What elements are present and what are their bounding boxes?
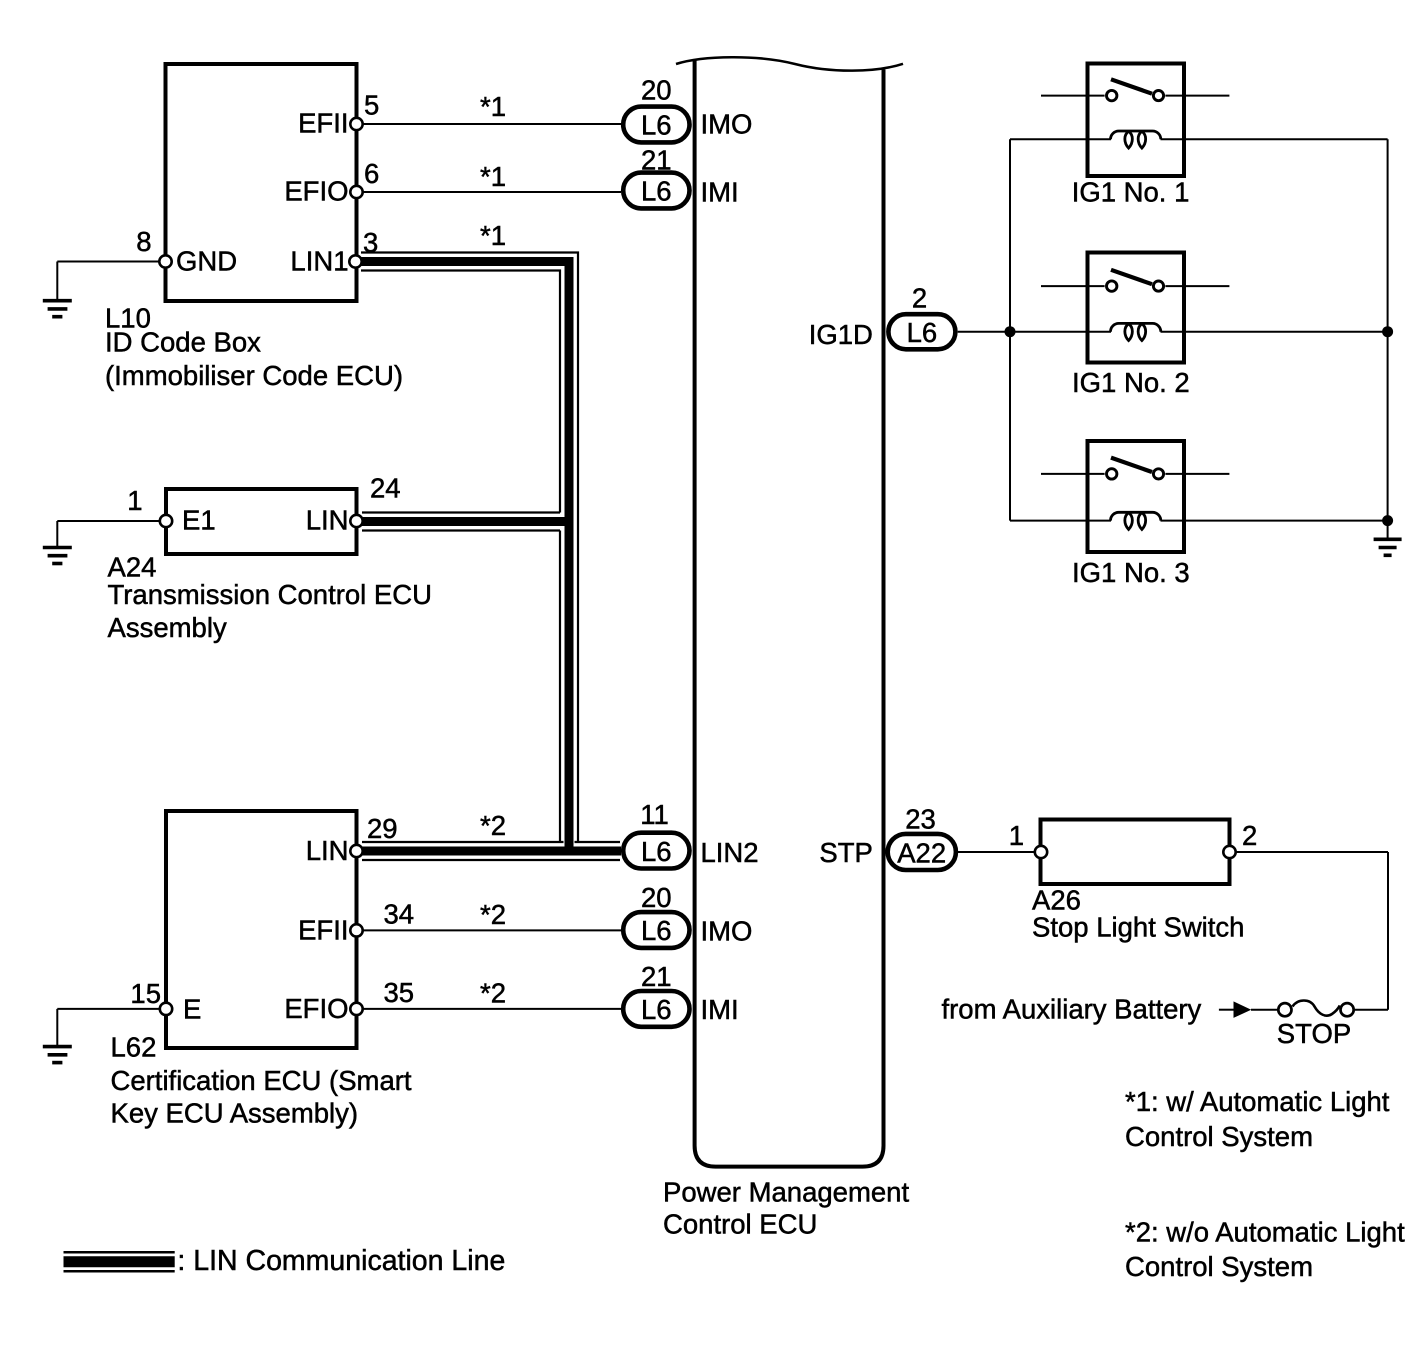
svg-text:11: 11 — [640, 799, 669, 830]
svg-text:1: 1 — [127, 485, 142, 516]
svg-text:Control ECU: Control ECU — [663, 1209, 817, 1240]
svg-text:A24: A24 — [108, 552, 157, 583]
svg-text:EFIO: EFIO — [284, 993, 348, 1024]
svg-text:*1: w/ Automatic Light: *1: w/ Automatic Light — [1125, 1086, 1390, 1117]
svg-text:IMO: IMO — [701, 915, 753, 946]
svg-text:IG1 No. 1: IG1 No. 1 — [1072, 177, 1190, 208]
svg-text:IG1D: IG1D — [809, 319, 873, 350]
svg-text:L62: L62 — [111, 1031, 157, 1062]
svg-text:L6: L6 — [641, 110, 672, 141]
svg-text:L6: L6 — [907, 317, 938, 348]
svg-text:from Auxiliary Battery: from Auxiliary Battery — [942, 994, 1202, 1025]
svg-text:3: 3 — [363, 227, 378, 258]
svg-text:LIN1: LIN1 — [290, 245, 348, 276]
svg-text:STOP: STOP — [1277, 1018, 1351, 1049]
svg-text:Assembly: Assembly — [108, 612, 227, 643]
svg-text:LIN: LIN — [306, 505, 349, 536]
svg-text:E: E — [183, 994, 201, 1025]
svg-text:STP: STP — [819, 837, 872, 868]
svg-text:*1: *1 — [480, 91, 506, 122]
svg-text:L6: L6 — [641, 994, 672, 1025]
svg-text:*1: *1 — [480, 161, 506, 192]
svg-text:IMI: IMI — [701, 994, 739, 1025]
svg-text:IMI: IMI — [701, 177, 739, 208]
svg-text:EFII: EFII — [298, 914, 348, 945]
svg-text:24: 24 — [370, 473, 401, 504]
svg-text:Stop Light Switch: Stop Light Switch — [1032, 912, 1244, 943]
svg-text:Certification ECU (Smart: Certification ECU (Smart — [111, 1065, 412, 1096]
svg-text:LIN: LIN — [306, 835, 349, 866]
svg-text:LIN2: LIN2 — [701, 837, 759, 868]
svg-text:23: 23 — [905, 803, 936, 834]
svg-text:: LIN Communication Line: : LIN Communication Line — [177, 1245, 505, 1277]
svg-text:IMO: IMO — [701, 109, 753, 140]
svg-text:20: 20 — [641, 75, 672, 106]
svg-text:ID Code Box: ID Code Box — [105, 327, 261, 358]
svg-text:21: 21 — [641, 961, 672, 992]
svg-text:*2: w/o Automatic Light: *2: w/o Automatic Light — [1125, 1217, 1405, 1248]
svg-text:Power Management: Power Management — [663, 1177, 909, 1208]
svg-text:IG1 No. 2: IG1 No. 2 — [1072, 367, 1190, 398]
svg-text:Transmission Control ECU: Transmission Control ECU — [108, 579, 432, 610]
svg-text:8: 8 — [136, 226, 151, 257]
svg-text:A22: A22 — [897, 838, 946, 869]
svg-text:1: 1 — [1009, 820, 1024, 851]
svg-text:E1: E1 — [182, 505, 216, 536]
svg-text:*2: *2 — [480, 899, 506, 930]
svg-text:L6: L6 — [641, 915, 672, 946]
svg-text:*2: *2 — [480, 978, 506, 1009]
svg-text:2: 2 — [1242, 820, 1257, 851]
svg-text:21: 21 — [641, 144, 672, 175]
svg-text:2: 2 — [912, 283, 927, 314]
svg-text:EFII: EFII — [298, 108, 348, 139]
svg-text:GND: GND — [176, 246, 237, 277]
svg-text:20: 20 — [641, 882, 672, 913]
svg-text:IG1 No. 3: IG1 No. 3 — [1072, 557, 1190, 588]
svg-text:*1: *1 — [480, 220, 506, 251]
svg-text:*2: *2 — [480, 810, 506, 841]
svg-text:L6: L6 — [641, 836, 672, 867]
svg-text:15: 15 — [130, 978, 161, 1009]
svg-text:(Immobiliser Code ECU): (Immobiliser Code ECU) — [105, 360, 403, 391]
svg-text:29: 29 — [367, 813, 398, 844]
svg-text:EFIO: EFIO — [284, 176, 348, 207]
svg-text:Control System: Control System — [1125, 1251, 1313, 1282]
svg-text:6: 6 — [364, 158, 379, 189]
svg-text:34: 34 — [384, 899, 415, 930]
svg-text:Control System: Control System — [1125, 1121, 1313, 1152]
svg-text:Key ECU Assembly): Key ECU Assembly) — [111, 1098, 359, 1129]
svg-text:L6: L6 — [641, 176, 672, 207]
svg-text:5: 5 — [364, 89, 379, 120]
svg-text:35: 35 — [384, 977, 415, 1008]
